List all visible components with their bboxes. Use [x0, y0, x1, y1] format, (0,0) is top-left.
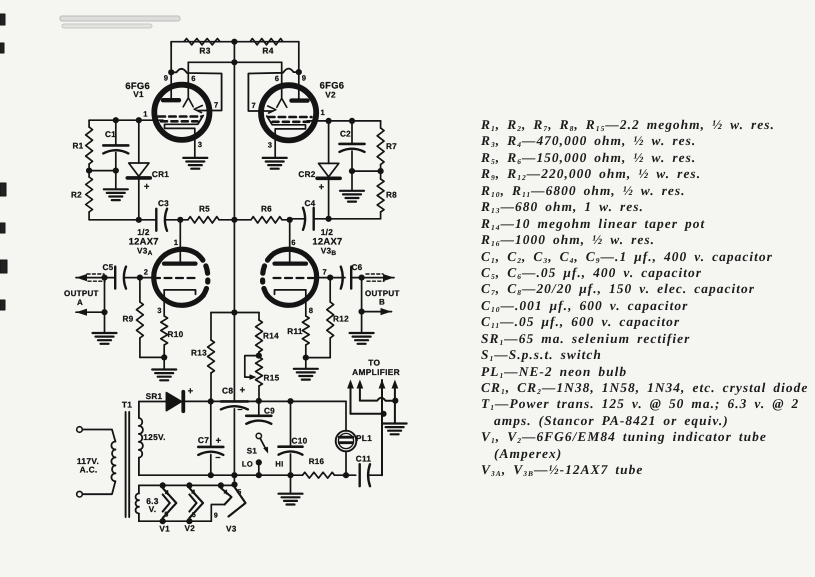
wire C11 riser: [381, 380, 383, 475]
svg-text:7: 7: [214, 101, 219, 110]
svg-text:C10: C10: [292, 437, 308, 446]
arrow amp 4: [392, 380, 399, 424]
node grid A: [137, 275, 143, 281]
svg-text:3: 3: [268, 141, 273, 150]
wire V2 pin 9 lead: [298, 42, 300, 99]
svg-text:3: 3: [198, 140, 203, 149]
svg-text:C4: C4: [304, 199, 315, 208]
resistor R1: [72, 127, 92, 164]
V3A plate bar: [164, 262, 196, 266]
svg-text:R7: R7: [386, 142, 397, 151]
node CR2 top: [326, 118, 332, 124]
heater V2: [189, 488, 203, 518]
label OUTPUT B: [365, 289, 400, 307]
label V3A pin 3: [157, 306, 162, 315]
resistor R8: [377, 179, 397, 212]
tube V3B envelope: [263, 249, 317, 305]
node CR2 bottom: [326, 216, 332, 222]
node grid B: [327, 275, 333, 281]
node C2 bottom: [349, 168, 355, 174]
wire V3A pin 1 lead: [179, 220, 181, 262]
node R7 R8 junction: [378, 165, 384, 180]
svg-text:V2: V2: [325, 91, 336, 100]
wire V1 pin 3 lead: [194, 134, 196, 158]
svg-text:6: 6: [191, 74, 196, 83]
wire V2 pin 6 lead: [281, 62, 283, 98]
node top rail center: [231, 39, 237, 45]
node C1 top: [113, 117, 119, 123]
svg-text:C8: C8: [222, 386, 233, 396]
svg-text:12AX7: 12AX7: [312, 235, 342, 246]
V2 triode cathode: [277, 98, 287, 107]
switch S1: [242, 433, 284, 468]
ground output B: [350, 333, 374, 344]
svg-text:9: 9: [164, 74, 169, 83]
tube V2 envelope: [261, 85, 316, 140]
node C7 bottom: [208, 472, 214, 478]
svg-text:CR2: CR2: [298, 170, 315, 179]
node heater V3 pin5: [231, 482, 237, 488]
svg-text:R8: R8: [386, 191, 397, 200]
heater V3: [221, 487, 246, 517]
svg-text:R2: R2: [71, 191, 82, 200]
node output A tap: [101, 275, 107, 281]
diode CR2: [298, 121, 340, 219]
svg-text:9: 9: [214, 513, 218, 520]
svg-text:R1: R1: [72, 142, 83, 151]
ground output A: [93, 333, 117, 344]
diode CR1: [127, 120, 169, 220]
node R13 C7 junction: [208, 398, 214, 404]
node amp junction: [380, 411, 386, 417]
wire R9-R10 bottom: [140, 356, 164, 358]
T1 core: [126, 412, 130, 517]
edge artifacts: [0, 14, 180, 310]
node C1 bottom: [113, 168, 119, 174]
rectifier SR1: [146, 386, 194, 411]
resistor R7: [377, 128, 397, 165]
label V1 pin 9: [164, 74, 169, 83]
T1 6.3V winding: [136, 485, 139, 521]
ground R9 R10: [152, 357, 176, 380]
svg-text:−: −: [215, 453, 221, 463]
label V3B pin 6: [291, 238, 296, 247]
svg-text:R13: R13: [191, 349, 207, 358]
svg-text:V2: V2: [184, 524, 195, 533]
wire V2 pin 1: [307, 120, 381, 122]
label OUTPUT A: [64, 289, 99, 307]
svg-text:V.: V.: [149, 504, 157, 514]
svg-text:3: 3: [157, 306, 162, 315]
svg-text:R11: R11: [287, 327, 303, 336]
node amp junction 2: [392, 398, 398, 404]
svg-text:R14: R14: [263, 332, 279, 341]
wire V3 pin9 link: [211, 505, 224, 522]
svg-text:7: 7: [252, 101, 257, 110]
wire top B+ rail: [171, 42, 299, 46]
label V1 pin 7: [214, 101, 219, 110]
label 6FG6 V1: [125, 80, 150, 99]
node R11 ground: [303, 355, 309, 361]
svg-text:V1: V1: [133, 90, 144, 99]
resistor R2: [71, 177, 93, 212]
svg-text:4: 4: [224, 490, 228, 497]
wire center bus: [233, 42, 235, 400]
pot wiper arm: [245, 356, 259, 380]
wire V2 pin7 hop link: [248, 69, 298, 111]
wire heater stub to rail: [233, 475, 235, 485]
wire grid B: [318, 277, 346, 279]
wire V3B pin 6 lead: [289, 220, 291, 262]
svg-text:R4: R4: [262, 46, 273, 56]
wire V2 pin 3 lead: [274, 135, 276, 158]
wire rail R5-R6: [227, 219, 243, 221]
heater V1: [163, 488, 177, 518]
resistor R6: [243, 205, 290, 224]
node C9 junction: [256, 398, 262, 404]
node R10 ground: [161, 354, 167, 360]
T1 primary winding: [83, 430, 116, 495]
label V1 pin 6: [191, 74, 196, 83]
wire V3B pin 8 lead: [305, 290, 307, 316]
resistor R4: [250, 39, 283, 56]
svg-text:125V.: 125V.: [143, 432, 166, 442]
node heater V1 pin5: [160, 518, 166, 524]
svg-text:V1: V1: [159, 525, 170, 534]
svg-text:+: +: [319, 182, 325, 193]
arrow output B upper: [383, 274, 394, 281]
node plate rail center: [231, 217, 237, 223]
label V3B pin 7: [323, 268, 328, 277]
label 6FG6 V2: [320, 80, 345, 100]
svg-text:4: 4: [165, 490, 169, 497]
svg-text:SR1: SR1: [146, 392, 163, 401]
capacitor C8: [221, 385, 248, 475]
svg-text:+: +: [216, 436, 222, 447]
node C10 junction: [287, 398, 293, 404]
node output A lower: [101, 309, 107, 315]
svg-text:9: 9: [302, 74, 307, 83]
svg-text:+: +: [240, 385, 246, 396]
node V1 pin9 junction: [168, 69, 174, 75]
V3A cathode: [164, 290, 195, 294]
svg-text:1: 1: [143, 110, 148, 119]
terminal AC top: [77, 427, 83, 433]
svg-text:V3: V3: [226, 525, 237, 534]
label heater pins 5 9: [164, 512, 218, 520]
svg-text:C9: C9: [264, 407, 275, 416]
svg-text:R16: R16: [309, 457, 325, 466]
node CR1 bottom: [136, 217, 142, 223]
wire R2 bottom corner: [89, 212, 156, 220]
label 6.3V: [146, 496, 159, 514]
resistor R12: [327, 278, 349, 358]
resistor R9: [122, 278, 143, 358]
wire V1 pin 6 lead: [187, 62, 189, 98]
resistor R11: [287, 316, 309, 358]
wire junction to C1: [89, 170, 116, 172]
resistor R13: [191, 340, 214, 401]
ground C2: [340, 191, 364, 202]
ground C10: [279, 475, 303, 504]
svg-text:6FG6: 6FG6: [320, 80, 345, 91]
V1 triode cathode: [183, 98, 193, 107]
node R1 R2 junction: [86, 164, 92, 177]
label V2 pin 7: [252, 101, 257, 110]
wire output B lower arm: [362, 311, 392, 313]
svg-text:C3: C3: [158, 199, 169, 208]
label V2 pin 3: [268, 141, 273, 150]
svg-text:R5: R5: [199, 205, 210, 214]
svg-text:7: 7: [323, 268, 328, 277]
resistor R5: [180, 205, 227, 224]
svg-text:OUTPUT: OUTPUT: [64, 289, 99, 298]
wire B+ low rail: [185, 400, 347, 402]
V2 target electrode: [267, 116, 306, 135]
node S1 LO: [256, 459, 262, 475]
label V3A pin 2: [144, 268, 149, 277]
node heater V2 pin4: [186, 482, 192, 488]
node bracket center: [231, 309, 237, 315]
svg-text:R12: R12: [333, 315, 349, 324]
svg-text:AMPLIFIER: AMPLIFIER: [352, 367, 400, 377]
svg-text:A.C.: A.C.: [80, 465, 98, 475]
svg-text:LO: LO: [242, 460, 253, 469]
svg-text:5: 5: [164, 512, 168, 519]
label V2 pin 6: [275, 74, 280, 83]
resistor R15: [256, 352, 280, 401]
svg-text:5: 5: [237, 489, 241, 496]
node R14 wiper junction: [256, 353, 262, 359]
svg-text:C1: C1: [105, 130, 116, 139]
capacitor C2: [340, 121, 365, 190]
svg-text:2: 2: [144, 268, 149, 277]
svg-text:1: 1: [174, 238, 179, 247]
V1 target electrode: [165, 116, 204, 135]
ground amplifier: [383, 424, 407, 435]
wire output B branch: [361, 278, 363, 333]
capacitor C3: [156, 199, 180, 231]
wire R1 top corner: [88, 120, 90, 127]
wire B- rail: [139, 474, 303, 476]
wire V1 pin7 hop link: [171, 69, 221, 111]
svg-text:C2: C2: [340, 130, 351, 139]
wire output B top: [353, 277, 394, 279]
svg-text:A: A: [77, 298, 83, 307]
svg-text:HI: HI: [275, 460, 283, 469]
svg-text:R6: R6: [261, 205, 272, 214]
svg-text:CR1: CR1: [152, 170, 169, 179]
wire R8 bottom corner: [314, 212, 381, 219]
wire C5 to grid: [124, 277, 153, 279]
wire V1 pin 9 lead: [170, 42, 172, 98]
capacitor C1: [103, 120, 128, 189]
svg-text:R9: R9: [122, 315, 133, 324]
svg-text:C6: C6: [351, 263, 362, 272]
svg-text:R10: R10: [168, 330, 184, 339]
wire V1 pin 1: [89, 119, 163, 121]
arrow amp 3: [379, 380, 386, 389]
svg-text:5: 5: [192, 512, 196, 519]
label V2 pin 1: [321, 108, 326, 117]
svg-text:−: −: [237, 405, 243, 415]
label T1: [122, 400, 132, 410]
V1 target bar: [163, 98, 179, 102]
V2 target bar: [292, 98, 308, 102]
svg-text:PL1: PL1: [356, 433, 372, 443]
V3B plate bar: [275, 262, 307, 266]
svg-text:8: 8: [309, 306, 314, 315]
resistor R14 pot: [256, 320, 280, 352]
wire output A branch: [104, 278, 106, 333]
arrow output A upper: [76, 274, 87, 281]
svg-text:V3A: V3A: [137, 247, 153, 258]
svg-text:4: 4: [191, 490, 195, 497]
capacitor C4: [290, 199, 316, 230]
label 1/2 12AX7 V3B: [312, 227, 342, 257]
node output B lower: [359, 309, 365, 315]
terminal AC bottom: [77, 491, 83, 497]
wire junction to C2: [352, 170, 381, 172]
shield hatch A: [87, 274, 105, 281]
ground V2: [263, 158, 287, 169]
ground V1: [183, 158, 207, 169]
svg-text:C5: C5: [102, 263, 113, 272]
node heater V2 pin5: [186, 518, 192, 524]
shield hatch B: [366, 274, 384, 281]
resistor R10: [161, 316, 184, 357]
capacitor C7: [198, 401, 223, 475]
label V1 pin 3: [198, 140, 203, 149]
wire R11-R12 bottom: [306, 357, 330, 359]
wire R7 top corner: [380, 121, 382, 128]
svg-text:12AX7: 12AX7: [129, 235, 159, 246]
V2 grid dashes: [268, 117, 312, 122]
label V2 pin 9: [302, 74, 307, 83]
label V1 pin 1: [143, 110, 148, 119]
label 117V AC: [77, 456, 99, 475]
node grid rail center: [231, 59, 237, 65]
ground R11 R12: [294, 358, 318, 380]
svg-text:R15: R15: [264, 374, 280, 383]
node C10 bottom: [287, 472, 293, 478]
svg-text:C11: C11: [356, 455, 372, 464]
tube V1 envelope: [154, 85, 209, 140]
arrow amp 2: [357, 380, 396, 401]
label V1 V2 V3: [159, 524, 236, 534]
node C2 top: [349, 118, 355, 124]
label 1/2 12AX7 V3A: [129, 227, 159, 257]
wire R16 to PL1: [335, 474, 347, 476]
label V3B pin 8: [309, 306, 314, 315]
node V2 pin9 junction: [296, 69, 302, 75]
svg-text:C7: C7: [198, 435, 209, 445]
wire output A lower arm: [76, 311, 105, 313]
V3B cathode: [275, 290, 306, 294]
capacitor C9: [246, 401, 275, 424]
svg-text:R3: R3: [199, 46, 210, 56]
node CR1 top: [136, 117, 142, 123]
V1 triode plate: [194, 106, 202, 113]
svg-text:6: 6: [275, 74, 280, 83]
wire T1 to SR1: [139, 401, 166, 403]
wire grid rail: [188, 61, 281, 63]
V1 grid dashes: [159, 117, 203, 122]
svg-text:B: B: [379, 298, 385, 307]
svg-text:1: 1: [321, 108, 326, 117]
T1 125V winding: [139, 402, 143, 476]
wire output A top: [76, 277, 115, 279]
capacitor C6: [341, 263, 363, 289]
resistor R16: [303, 457, 335, 478]
wire heater bus top: [139, 484, 235, 486]
node output B tap: [359, 275, 365, 281]
resistor R3: [184, 39, 220, 56]
label TO AMPLIFIER: [352, 358, 400, 377]
node heater V3 pin4: [218, 482, 224, 488]
svg-text:T1: T1: [122, 400, 132, 410]
svg-text:V3B: V3B: [321, 247, 337, 258]
wire heater bus bottom: [139, 520, 211, 522]
label heater pins 4: [165, 489, 242, 497]
lamp PL1: [336, 401, 372, 475]
tube V3A envelope: [154, 249, 208, 305]
node V3A pin1: [177, 217, 183, 223]
V2 triode plate: [268, 106, 276, 113]
V3A grid dashes: [153, 277, 197, 279]
capacitor C10: [279, 401, 308, 475]
node heater V1 pin4: [160, 482, 166, 488]
arrow output B lower: [381, 308, 392, 315]
arrow amp 1: [347, 380, 383, 414]
svg-text:6: 6: [291, 238, 296, 247]
V3B grid dashes: [274, 277, 318, 279]
node PL1 C11 junction: [343, 472, 349, 478]
svg-text:+: +: [144, 182, 150, 193]
wire V3A pin 3 lead: [163, 290, 165, 316]
arrow output A lower: [76, 309, 87, 316]
node LO rail: [256, 472, 262, 478]
ground C1: [104, 189, 128, 200]
svg-text:+: +: [188, 386, 194, 397]
capacitor C5: [102, 263, 126, 289]
node V3B pin6: [287, 217, 293, 223]
label V3A pin 1: [174, 238, 179, 247]
node C8 bottom: [231, 472, 237, 478]
label 125V: [143, 432, 166, 442]
capacitor C11: [346, 455, 382, 487]
svg-text:S1: S1: [247, 447, 258, 456]
wire R13-R14 bracket: [211, 313, 259, 341]
